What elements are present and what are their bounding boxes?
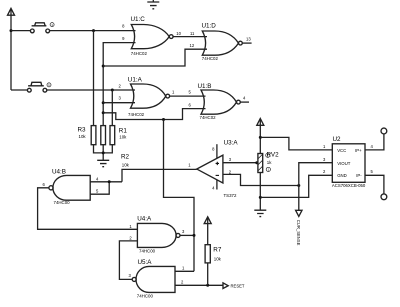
wire to U1:D pin12 [103,49,207,66]
wire down to R3 [93,31,95,126]
svg-text:12: 12 [190,43,195,48]
wire arrow to R7 [207,217,209,244]
svg-text:IP+: IP+ [355,148,362,153]
svg-text:U2: U2 [333,136,342,143]
svg-text:74HC02: 74HC02 [202,56,219,61]
svg-text:74HC00: 74HC00 [139,248,156,253]
wire U2 IP- to terminal [365,175,384,194]
terminal bottom right [381,194,387,200]
wire R2 run to op-amp output [122,169,197,181]
node button2/R1 [111,89,114,92]
svg-text:U3:A: U3:A [224,139,239,146]
wire [10,9,12,90]
terminal RESET [223,283,245,289]
resistor R1 [110,126,127,145]
ground RV2 [254,210,266,216]
power stub bottom pin 4 [216,180,218,190]
wire R7 to reset net [207,263,209,285]
minus sign [216,174,219,176]
power stub top pin 8 [216,144,218,158]
power arrow R7 [204,217,211,224]
wire U5:A pin1 riser [175,270,194,272]
potentiometer RV2 [258,152,279,173]
svg-text:74HC02: 74HC02 [131,51,148,56]
svg-text:GND: GND [337,173,347,178]
wire U4:B output to U4:A pin1 [38,188,138,230]
svg-text:U4:A: U4:A [137,215,152,222]
resistor middle [101,126,106,145]
svg-text:74HC02: 74HC02 [200,115,217,120]
wire to U1:A pin3 [103,102,135,104]
wire RV2 bottom to ground [259,173,261,211]
wire op-amp pin2 [223,174,299,185]
svg-text:U4:B: U4:B [52,169,66,176]
svg-text:74HC00: 74HC00 [54,200,71,205]
svg-text:74HC02: 74HC02 [128,112,145,117]
ground top [147,0,159,9]
node resistor bottoms [102,151,105,154]
node gnd net [259,196,262,199]
svg-text:U5:A: U5:A [138,259,153,266]
wire op-amp pin3 to RV2 wiper [223,162,257,164]
wire feedback down [164,120,195,272]
wire U4:A output [180,234,194,236]
nand gate U5:A (left facing) [129,259,186,298]
node pin9/U1:A pin3 [102,101,105,104]
pushbutton 2 [11,82,47,92]
label circled 1 of button 2 [47,83,51,87]
wires resistor bottoms [94,145,113,160]
wire U4:A pin2 from U5:A out [119,241,137,280]
wire arrow to RV2 [259,119,261,153]
power arrow RV2 [257,119,264,126]
node U4:A out / feedback [193,234,196,237]
nand gate U4:B (left facing) [43,169,100,206]
svg-text:74HC00: 74HC00 [137,293,154,298]
wire [11,30,30,32]
node: left rail junction to button1 [10,29,13,32]
node feedback [162,118,165,121]
wire U5:A pin2 to RESET [175,284,223,286]
chip U2 [332,136,366,188]
node pin2/viout [297,184,300,187]
wire button1 to U1:C pin8 [50,30,136,32]
wire U1:C pin9 corner [103,43,135,126]
node pin9/U1:B pin6 [102,111,105,114]
svg-text:TS372: TS372 [224,193,237,198]
wire U1:B output [240,101,249,103]
wire U1:D output [242,42,251,44]
nor gate U1:A [118,76,169,117]
svg-text:VCC: VCC [337,148,346,153]
svg-text:10k: 10k [119,134,127,139]
svg-text:R2: R2 [121,154,130,161]
svg-text:VIOUT: VIOUT [337,161,351,166]
label circled 1 top of RV2 [266,153,270,157]
svg-text:10k: 10k [214,256,222,261]
wire down to R1 [111,90,113,126]
node vcc branch [259,136,262,139]
plus sign [216,162,219,165]
wire U1:C out to U1:D pin11 [173,36,207,38]
nor gate U1:D [190,23,243,62]
node wiper [255,161,258,164]
ground resistors [97,160,109,166]
svg-text:U1:A: U1:A [128,76,143,83]
terminal top right [381,128,387,134]
svg-text:ACS706XCB-050: ACS706XCB-050 [332,183,366,188]
svg-text:13: 13 [246,37,251,42]
pushbutton 1 [30,23,49,33]
svg-text:10k: 10k [122,162,130,167]
power arrow top-left [8,8,15,90]
wire U2 IP+ to terminal [365,134,384,150]
svg-text:CUR_SENSE: CUR_SENSE [296,220,301,246]
svg-text:10: 10 [176,31,181,36]
nand gate U4:A [129,215,185,253]
wire U1:A out to U1:B pin5 [170,95,206,97]
svg-text:RESET: RESET [231,283,245,288]
nor gate U1:C [122,16,173,56]
resistor R3 [78,126,96,145]
wire U2 viout to cur_sense [299,163,333,211]
label circled 1 bottom of RV2 [266,167,270,171]
svg-text:1k: 1k [267,160,272,165]
op-amp U3:A (left facing) [197,139,239,198]
node pin9/pin12 [102,65,105,68]
svg-text:R7: R7 [213,246,222,253]
wire gnd to U2 pin2 [260,175,332,197]
svg-text:U1:C: U1:C [131,16,146,23]
svg-text:IP-: IP- [356,173,362,178]
svg-text:U1:D: U1:D [202,23,217,30]
nor gate U1:B [198,83,241,120]
svg-text:10k: 10k [79,134,87,139]
node button1/R3 [92,29,95,32]
wire to U1:B pin6 net [103,109,205,120]
terminal arrow CUR_SENSE [296,210,302,245]
svg-text:11: 11 [190,31,195,36]
node U4:B inputs [108,180,111,183]
wire button2 to U1:A pin2 [47,89,135,91]
svg-text:U1:B: U1:B [198,83,212,90]
wire vcc to U2 pin1 [260,137,332,150]
wire U4:B inputs tied [90,182,122,194]
label R2 [121,154,130,168]
label circled 1 of button 1 [50,23,54,27]
resistor R7 [205,245,222,263]
svg-text:R3: R3 [78,127,87,134]
node R7/reset [206,284,209,287]
